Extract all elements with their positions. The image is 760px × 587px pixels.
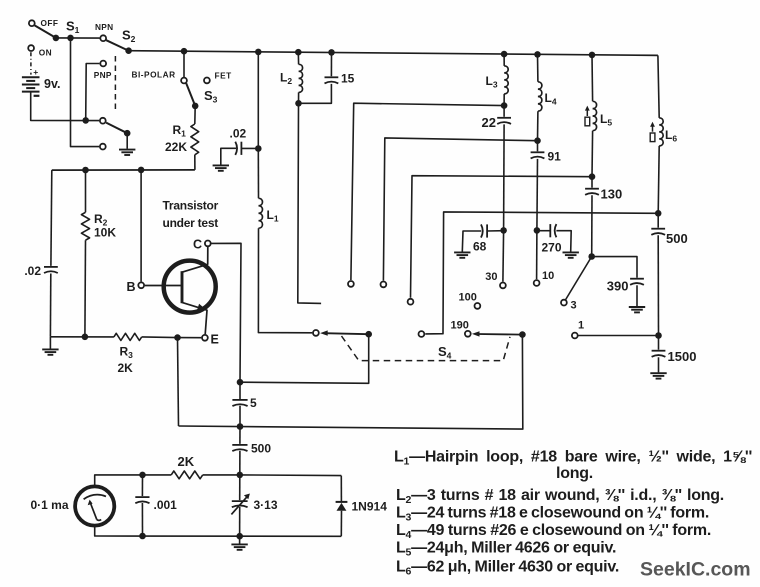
battery 9v plates	[22, 77, 40, 91]
svg-text:SeekIC.com: SeekIC.com	[640, 559, 751, 581]
capacitor 68	[481, 224, 487, 237]
resistor R3 body	[114, 333, 142, 340]
ground below upper .02 cap	[213, 165, 229, 170]
junction bus x258	[255, 49, 262, 56]
junction bus L4	[534, 51, 541, 58]
switch S2 lower contact b	[100, 144, 106, 150]
junction battery-minus PNP node	[82, 117, 89, 124]
switch S2 lower arm	[106, 123, 127, 134]
svg-text:.02: .02	[230, 127, 247, 141]
junction mid rail B	[138, 167, 145, 174]
junction S2 arm on bus	[125, 47, 132, 54]
svg-text:E: E	[211, 333, 219, 347]
capacitor 270	[550, 224, 556, 237]
wire 270 node to cap	[537, 230, 550, 232]
ground bottom left	[42, 349, 58, 354]
wire bus to S3	[183, 51, 185, 77]
switch S1 ON terminal	[28, 45, 34, 51]
wire L2 bottom	[298, 92, 300, 103]
slug arrow L5	[585, 106, 590, 126]
wire L1 to S4 contact	[258, 228, 312, 333]
junction cap node x258	[255, 145, 262, 152]
switch S3 FET terminal	[204, 78, 210, 84]
junction 500 node	[655, 210, 662, 217]
junction bus L3	[501, 51, 508, 58]
capacitor 500 meter	[232, 445, 247, 451]
wire battery dash-dot link	[30, 52, 32, 74]
resistor R1 body	[191, 124, 199, 155]
svg-text:30: 30	[485, 271, 497, 283]
wire bus down to cap node	[257, 52, 259, 149]
junction 001 bottom	[139, 533, 146, 540]
wire L2 junction down to S4 contact 1	[298, 103, 321, 303]
S4 gang dashed link	[342, 336, 511, 361]
capacitor 5	[232, 400, 247, 406]
wire cap15 bottom to L2 junction	[299, 84, 332, 103]
svg-text:NPN: NPN	[95, 22, 113, 32]
wire line C	[411, 176, 593, 298]
wire range node to contact 3	[565, 257, 591, 301]
transistor emitter arrow	[197, 304, 206, 311]
svg-text:.001: .001	[154, 498, 178, 512]
junction range node	[588, 253, 595, 260]
switch S1 arm	[35, 25, 56, 38]
junction L3 bottom	[501, 102, 508, 109]
wire diode top lead	[340, 476, 342, 502]
svg-text:C: C	[193, 238, 202, 252]
trimmer arrow	[231, 494, 250, 515]
wire L4 node to cap 91	[537, 141, 539, 152]
resistor R2 body	[81, 212, 89, 240]
wire L6 bottom to 500 node	[658, 146, 659, 213]
svg-text:under test: under test	[163, 216, 219, 230]
wire B from mid rail	[140, 170, 142, 282]
slug arrow L6	[650, 122, 655, 142]
svg-text:3·13: 3·13	[254, 498, 278, 512]
S4 contact 5	[419, 331, 425, 337]
wire battery minus down and right	[31, 92, 100, 121]
S4 right wiper arrow	[472, 331, 480, 336]
junction L2 bottom	[295, 100, 302, 107]
ground below 270	[563, 252, 579, 257]
junction 270 node	[534, 227, 541, 234]
resistor 2K body	[171, 471, 203, 479]
wire 270 node to contact 10	[536, 230, 538, 279]
wire cap to ground bend	[221, 148, 236, 164]
junction S2 lower arm	[124, 130, 131, 137]
junction bus S3 tap	[181, 48, 188, 55]
wire meter top	[95, 475, 143, 487]
wire S1 common down-left deck	[71, 38, 100, 147]
switch S2 arm	[106, 40, 128, 51]
wire corner to R3	[50, 336, 114, 338]
S4 right wiper	[477, 333, 523, 336]
wire 68 node to contact 30	[502, 230, 505, 281]
junction 68 node	[500, 227, 507, 234]
wire B terminal to base	[145, 285, 181, 287]
wire cap to x258 column	[241, 147, 258, 149]
ground below 1500	[650, 373, 666, 378]
junction trimmer bottom	[236, 533, 243, 540]
wire diode bottom lead	[340, 511, 342, 537]
svg-text:1500: 1500	[668, 349, 697, 364]
S4 contact 190	[465, 331, 471, 337]
junction 5cap top	[237, 379, 244, 386]
svg-text:L2​—3 turns # 18 air wound, ⅜': L2​—3 turns # 18 air wound, ⅜'' i.d., ⅜'…	[396, 487, 724, 506]
svg-text:22K: 22K	[165, 140, 187, 154]
wire 5cap leads	[239, 382, 241, 400]
junction S3 arm	[192, 103, 199, 110]
wire 001 bottom lead	[141, 503, 143, 536]
svg-text:10K: 10K	[94, 226, 116, 240]
wire L3 node to cap 22	[503, 106, 505, 117]
wire left wiper down	[240, 334, 369, 383]
svg-text:2K: 2K	[118, 361, 134, 375]
svg-text:270: 270	[542, 241, 562, 255]
svg-text:5: 5	[250, 396, 257, 410]
capacitor 15	[325, 77, 339, 83]
wire cap22 down to 68 node	[503, 124, 506, 230]
ground below S2 lower deck	[119, 150, 135, 155]
wire 1500 node to cap	[658, 336, 660, 350]
svg-text:BI-POLAR: BI-POLAR	[132, 70, 176, 80]
wire meter bottom	[95, 526, 342, 537]
svg-text:L6​—62 μh, Miller 4630 or equi: L6​—62 μh, Miller 4630 or equiv.	[396, 559, 619, 578]
svg-text:100: 100	[459, 292, 477, 304]
junction bus cap15	[328, 49, 335, 56]
svg-text:PNP: PNP	[94, 70, 112, 80]
terminal E	[202, 335, 208, 341]
ground below 68	[454, 252, 470, 257]
switch S1 OFF terminal	[29, 20, 35, 26]
wire bus corner to L6	[658, 55, 659, 118]
junction 1500 node	[655, 332, 662, 339]
wire R2 to R3 rail	[84, 240, 87, 337]
inductor L5	[593, 101, 597, 130]
S4 left wiper	[324, 333, 369, 334]
junction mid rail R2	[82, 167, 89, 174]
meter scale arc	[84, 495, 106, 500]
wire L4 bottom	[537, 111, 539, 141]
svg-text:500: 500	[251, 442, 271, 456]
meter needle	[88, 500, 102, 521]
junction 001 top	[139, 472, 146, 479]
S4 contact 30	[500, 283, 506, 289]
junction L5 bottom	[589, 173, 596, 180]
capacitor 500 rf	[651, 229, 665, 235]
wire 68 to node	[487, 230, 504, 232]
ground below trimmer	[231, 544, 247, 549]
svg-text:Transistor: Transistor	[163, 199, 219, 213]
svg-text:130: 130	[601, 187, 623, 202]
junction R2 bottom	[82, 334, 89, 341]
svg-text:22: 22	[482, 115, 496, 130]
wire 68 ground lead	[462, 231, 481, 252]
svg-text:10: 10	[542, 270, 554, 282]
svg-text:L4​—49 turns #26 e closewound: L4​—49 turns #26 e closewound on ¼'' for…	[396, 522, 711, 541]
S4 contact 4	[408, 299, 414, 305]
transistor base bar	[181, 271, 184, 303]
svg-text:390: 390	[607, 279, 629, 294]
wire line D	[425, 212, 658, 334]
wire R1 to mid rail	[194, 155, 196, 170]
meter circle	[75, 486, 114, 525]
svg-text:+: +	[33, 67, 38, 77]
wire 500 cap bottom	[239, 451, 241, 475]
S4 left wiper arrow	[320, 330, 328, 335]
capacitor 130	[585, 189, 599, 195]
switch S3 arm	[186, 83, 195, 106]
wire 001 top lead	[141, 475, 143, 496]
capacitor .02 lower	[44, 267, 58, 273]
svg-text:B: B	[127, 280, 136, 294]
junction bus L5	[589, 52, 596, 59]
wire cap130 down to range node	[591, 195, 593, 256]
junction bottom rail 5cap	[237, 423, 244, 430]
svg-text:long.: long.	[556, 465, 593, 482]
capacitor 91	[531, 152, 545, 158]
wire S1 common to NPN contact	[56, 37, 100, 39]
wire to 500 cap	[239, 427, 241, 444]
wire C to column	[212, 243, 242, 382]
svg-text:1N914: 1N914	[352, 500, 388, 514]
wire S3 to R1	[194, 106, 196, 124]
transistor Q1 circle	[164, 261, 216, 313]
switch S2 NPN terminal	[100, 35, 106, 41]
ground below 390	[629, 307, 645, 312]
capacitor 22	[497, 118, 511, 124]
junction L4 bottom	[534, 137, 541, 144]
S4 contact 100	[475, 303, 481, 309]
wire bus to cap 15	[330, 52, 332, 76]
capacitor .02 upper	[235, 142, 241, 155]
svg-text:1: 1	[578, 320, 584, 332]
wire bus to L2	[297, 52, 299, 64]
wire top rail to diode	[240, 474, 341, 477]
S4 contact 3x	[561, 300, 567, 306]
wire right wiper down	[179, 335, 523, 430]
wire mid rail to R2	[85, 170, 87, 212]
inductor L4	[538, 82, 542, 111]
wire 390 to ground	[636, 285, 638, 306]
inductor L6	[659, 118, 663, 146]
wire 2K left	[143, 474, 172, 476]
terminal C	[205, 241, 211, 247]
wire line A	[351, 103, 504, 280]
svg-text:0·1 ma: 0·1 ma	[30, 498, 68, 512]
capacitor 3-13	[232, 501, 248, 507]
wire contact 1 to 1500 node	[579, 335, 659, 337]
wire cap node to L1	[257, 149, 259, 199]
inductor L2	[299, 64, 303, 92]
svg-text:OFF: OFF	[41, 18, 59, 28]
wire bus to L4	[537, 54, 539, 81]
transistor collector lead	[182, 247, 208, 272]
wire cap91 down to 270 node	[536, 159, 539, 231]
S4 contact 2	[348, 281, 354, 287]
svg-text:15: 15	[341, 72, 355, 86]
svg-text:L5​—24μh, Miller 4626 or equiv: L5​—24μh, Miller 4626 or equiv.	[396, 540, 616, 559]
svg-text:91: 91	[548, 150, 562, 164]
wire 2K right	[203, 474, 240, 476]
svg-text:FET: FET	[215, 71, 232, 81]
wire R3 to E node	[142, 336, 178, 339]
transistor emitter lead	[182, 302, 207, 334]
wire range node to cap 390	[592, 257, 637, 278]
svg-text:ON: ON	[39, 47, 52, 57]
junction bus L2	[295, 49, 302, 56]
wire trimmer bottom lead	[239, 507, 241, 544]
wire 500 node to cap	[657, 213, 659, 227]
svg-text:190: 190	[451, 320, 469, 332]
wire corner to ground	[49, 337, 51, 349]
switch S2 lower contact a	[100, 118, 106, 124]
capacitor 390	[630, 279, 644, 285]
inductor L1	[259, 198, 263, 228]
wire mid rail	[52, 169, 195, 171]
wire lower arm to ground	[126, 133, 128, 149]
capacitor .001	[135, 497, 149, 503]
junction E node	[174, 334, 181, 341]
svg-text:3: 3	[571, 300, 577, 312]
wire bus to L3	[503, 54, 505, 66]
junction at x70	[67, 35, 74, 42]
switch S3 BI-POLAR terminal	[181, 78, 187, 84]
capacitor 1500	[652, 351, 666, 357]
svg-text:9v.: 9v.	[44, 77, 60, 91]
wire E to E node	[178, 337, 202, 339]
wire mid rail to lower .02	[50, 170, 53, 266]
wire top supply bus	[129, 51, 658, 56]
junction S4 right wiper	[519, 331, 526, 338]
diode D1 1N914	[336, 502, 348, 511]
junction S4 left wiper	[365, 331, 372, 338]
wire 5cap bottom	[239, 406, 241, 427]
label battery minus	[34, 95, 40, 97]
junction S1 arm	[53, 35, 60, 42]
wire trimmer top lead	[239, 475, 241, 500]
wire L5 node to cap 130	[591, 177, 593, 188]
wire L5 bottom	[591, 131, 594, 177]
S4 contact 10	[534, 280, 540, 286]
wire L3 bottom	[503, 94, 505, 106]
wire cap500 down to 1500 node	[657, 235, 659, 335]
wire E node down	[178, 338, 179, 426]
wire bus to L5	[591, 55, 594, 101]
svg-text:L3​—24 turns #18 e closewound: L3​—24 turns #18 e closewound on ¼'' for…	[396, 505, 709, 524]
wire 1500 to ground	[658, 357, 660, 372]
wire PNP to battery-minus node	[86, 64, 100, 121]
junction trimmer node	[237, 472, 244, 479]
svg-text:2K: 2K	[178, 454, 195, 469]
wire line B	[383, 138, 537, 281]
wire lower .02 to corner	[49, 274, 51, 337]
terminal B	[138, 282, 144, 288]
svg-text:68: 68	[473, 240, 487, 254]
switch S2 PNP terminal	[100, 61, 106, 67]
svg-text:500: 500	[666, 231, 688, 246]
switch S2 gang dashed link	[114, 56, 116, 112]
wire 270 ground lead	[556, 231, 571, 252]
inductor L3	[504, 66, 508, 94]
S4 contact 3	[381, 282, 387, 288]
svg-text:.02: .02	[24, 264, 41, 278]
S4 left selected contact	[313, 330, 319, 336]
S4 contact 1	[572, 333, 578, 339]
